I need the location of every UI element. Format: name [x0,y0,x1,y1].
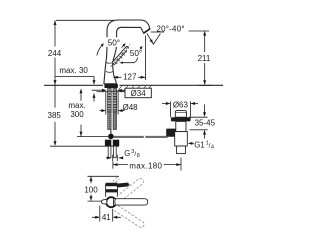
svg-text:50°: 50° [130,49,142,58]
50 deg second upper arrowhead [140,47,142,49]
lever handle hatched [112,46,128,64]
svg-text:Ø34: Ø34 [131,89,147,98]
drain body [176,121,186,131]
base plinth [104,84,118,88]
svg-text:G1: G1 [194,140,204,149]
dashed lever rotated up [117,178,144,201]
hose connection nuts [105,140,111,146]
svg-text:max. 30: max. 30 [59,66,88,75]
50 deg right arrowhead [122,45,125,48]
svg-text:20°-40°: 20°-40° [157,24,185,33]
counter underside line [97,91,152,93]
dimension D63 [162,101,198,117]
dimension 127 [113,36,145,81]
svg-text:244: 244 [48,49,62,58]
dimension max.180 [113,158,181,171]
front view body [106,183,118,197]
body top cap [106,183,118,186]
body seam lines [106,63,113,73]
drain tailpiece [175,132,188,146]
lever nub [116,182,129,187]
basin surface line at drain [190,129,208,131]
threaded shank studs [108,89,112,113]
solid lever [114,199,148,205]
svg-text:300: 300 [70,110,84,119]
dashed lever up fragment [113,177,120,182]
dimension 100 [88,176,120,201]
jet angle lines 20-40 [147,33,161,44]
swivel circle [106,197,116,207]
label 50 deg first [105,37,123,47]
svg-text:211: 211 [198,54,211,63]
drain flange [171,117,191,121]
spout tip aerator [144,29,150,33]
label 50 deg second [127,49,145,58]
label G1 1/4 with arrow [190,142,194,144]
svg-text:4: 4 [211,145,214,151]
50 deg left arc arrow [97,44,103,55]
faucet body and spout outline [104,20,150,84]
dimension max 300 [77,89,108,136]
svg-text:max.180: max.180 [129,162,162,171]
left nub [101,200,106,204]
dimension 41 [92,206,121,222]
svg-text:Ø48: Ø48 [123,103,139,112]
drain pop-up knob [175,110,186,117]
svg-text:G: G [124,149,130,158]
counter top line [44,84,223,86]
dimension D48 [99,92,124,114]
rod clevis fitting [166,129,176,137]
lever axis dash-dot [111,44,131,67]
svg-text:385: 385 [48,111,62,120]
dimension D34 with box [92,89,125,91]
supply hoses braided [108,112,111,130]
body mid collar [106,189,118,192]
pop-up rod pin and ball joint [110,130,112,135]
dashed lever rotated down [114,205,144,227]
20-40 underline [151,31,164,33]
G3/8 hose tails [108,146,111,158]
dimension 244-385 main line [50,20,119,146]
label G3/8 with arrow [106,155,124,161]
counter hatch [117,86,151,92]
svg-text:127: 127 [123,73,137,82]
50 deg second leader arrow [121,58,138,63]
svg-text:max.: max. [68,101,85,110]
svg-text:8: 8 [137,153,140,159]
svg-text:35-45: 35-45 [195,118,216,127]
dimension 35-45 [189,105,208,139]
svg-text:100: 100 [84,186,98,195]
svg-text:50°: 50° [108,38,120,47]
dimension 211 [189,31,212,85]
horizontal pop-up rod [114,136,168,138]
svg-text:Ø63: Ø63 [173,101,189,110]
svg-text:41: 41 [102,213,111,222]
